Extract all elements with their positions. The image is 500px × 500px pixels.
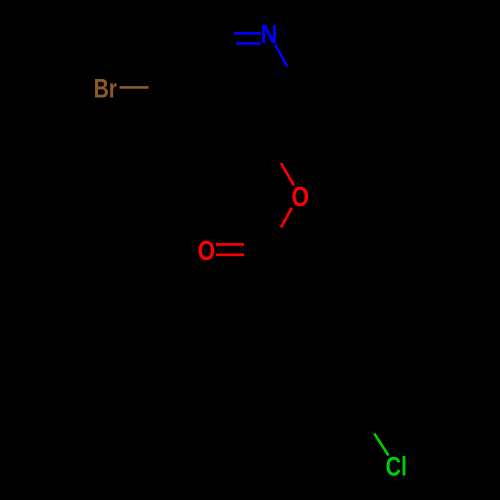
wire: N1-C6 bond (blue half) [275, 45, 287, 67]
wire: Br-C5 bond (brown half) [120, 86, 149, 89]
svg-text:Cl: Cl [386, 452, 407, 482]
chlorine substituent label Cl [386, 452, 407, 482]
svg-text:O: O [198, 236, 216, 267]
bromine substituent label Br [94, 74, 118, 104]
wire: C=O double bond lower (red half) [216, 254, 244, 257]
svg-text:O: O [291, 182, 309, 213]
wire: C4'-Cl bond (green half) [374, 434, 388, 456]
wire: O-C carbonyl-carbon bond (red half) [281, 208, 292, 228]
wire: C2=N1 double bond inner (blue half) [236, 42, 261, 45]
ester oxygen label O [291, 182, 309, 213]
wire: C3-O ester bond (red half) [281, 163, 294, 185]
wire: C=O double bond upper (red half) [216, 243, 244, 246]
carbonyl oxygen label O [198, 236, 216, 267]
pyridine nitrogen label N1 [260, 20, 277, 49]
svg-text:Br: Br [94, 74, 118, 104]
wire: C2=N1 double bond outer (blue half) [234, 32, 261, 35]
